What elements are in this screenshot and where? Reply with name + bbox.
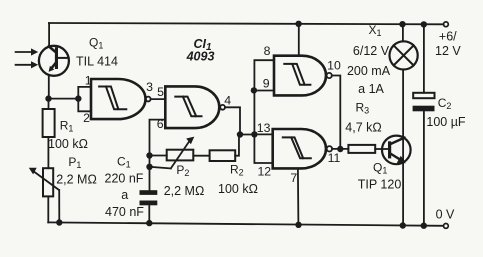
junction C2 on top rail [421,21,427,27]
svg-text:2,2 MΩ: 2,2 MΩ [56,172,97,186]
junction pin14 on top rail [295,21,301,27]
svg-text:1: 1 [85,73,92,87]
svg-text:C2: C2 [438,96,452,111]
NAND gate U1a pins 1,2,3 [91,79,151,119]
wire pin14 supply drop [298,24,300,56]
wire pin7 ground drop [297,168,300,224]
resistor R1 [43,99,55,169]
junction C1 on 0V rail [146,220,152,226]
wire gate3 output pin10 down to pin11 node [332,76,341,150]
svg-text:R2: R2 [230,163,244,178]
resistor R2 [210,150,236,161]
svg-text:P2: P2 [176,163,189,178]
wire gate1 output to gate2 pin5 [151,98,166,100]
wire node A to node B [49,98,79,100]
capacitor C1 [140,190,158,223]
svg-text:220 nF: 220 nF [105,171,144,185]
junction lamp on top rail [399,21,405,27]
svg-text:Q1: Q1 [373,161,387,176]
svg-text:10: 10 [327,58,341,72]
capacitor C2 [413,24,435,225]
svg-text:4093: 4093 [186,49,215,63]
wire pin4 node to input line [240,134,254,136]
svg-text:7: 7 [290,171,297,185]
junction P1 wiper on 0V rail [56,219,62,225]
wire R2 right up to pin4 node [235,135,239,156]
junction pin7 on 0V rail [295,222,301,228]
wire Q1 emitter down to node A [48,75,50,98]
trimpot P2 [150,137,195,169]
svg-text:200 mA: 200 mA [347,64,391,78]
svg-text:13: 13 [257,121,271,135]
light arrow 2 [16,61,39,68]
svg-text:100 kΩ: 100 kΩ [48,137,88,151]
svg-text:0 V: 0 V [436,208,455,222]
junction pin6 line to P2 [146,152,152,158]
svg-text:+6/: +6/ [439,30,457,44]
svg-text:TIP 120: TIP 120 [358,178,402,192]
svg-text:2: 2 [83,111,90,125]
svg-text:5: 5 [157,85,164,99]
junction pin9 [251,87,257,93]
wire gate1 input bar pins 1-2 [78,87,91,111]
junction C2 on 0V rail [421,223,427,229]
wire pin13 [254,133,272,135]
wire P2 to R2 [193,155,209,157]
wire R3 to Q2 base [375,148,388,150]
wire node to P2 left [150,155,167,157]
svg-text:a: a [121,188,128,202]
transistor Q2 TIP 120 [382,136,411,165]
svg-text:12: 12 [257,164,271,178]
wire Q1 collector to top rail [48,23,50,47]
light arrow 1 [16,48,39,55]
wire bottom 0V rail [48,222,443,225]
wire top supply rail [49,23,444,24]
svg-text:R1: R1 [60,119,74,134]
svg-text:6/12 V: 6/12 V [353,44,390,58]
resistor R3 [348,145,375,153]
wire lamp / Q2 collector-emitter vertical [402,70,404,226]
svg-text:8: 8 [264,44,271,58]
svg-text:3: 3 [146,80,153,94]
junction pin11 node [337,146,343,152]
junction pin4 node [237,131,243,137]
junction pin6 line to P2 wiper [146,164,152,170]
svg-text:TIL 414: TIL 414 [76,54,118,68]
NAND gate U1c pins 8,9,10 [274,56,332,96]
svg-text:2,2 MΩ: 2,2 MΩ [164,184,205,198]
svg-text:100 kΩ: 100 kΩ [218,182,258,196]
svg-text:100 µF: 100 µF [426,115,466,129]
wire gate2 output pin4 [225,107,240,134]
node A junction [45,95,51,101]
terminal +6/12V [444,22,449,27]
svg-text:9: 9 [263,76,270,90]
svg-text:X1: X1 [369,23,382,38]
transistor Q1 TIL 414 [39,46,69,76]
svg-text:a 1A: a 1A [358,82,384,96]
junction pin13 [251,131,257,137]
svg-text:P1: P1 [68,155,81,170]
wire pin9 [254,90,274,92]
svg-text:4,7 kΩ: 4,7 kΩ [345,121,381,135]
NAND gate U1d pins 12,13,11 [273,129,332,168]
potentiometer P1 [29,168,60,223]
svg-text:12 V: 12 V [435,44,461,58]
junction Q2 emitter on 0V rail [400,222,406,228]
wire gate2 pin6 from P2/C1 node [150,120,166,191]
svg-text:Q1: Q1 [89,36,103,51]
lamp X1 [390,24,418,69]
svg-text:R3: R3 [356,101,370,116]
wire gate4 output pin11 [332,148,348,150]
svg-text:470 nF: 470 nF [105,205,144,219]
svg-text:4: 4 [224,93,231,107]
NAND gate U1b pins 5,6,4 [165,86,225,128]
wire gates 3-4 input line [254,60,274,163]
terminal 0V [444,224,449,229]
svg-text:6: 6 [157,117,164,131]
svg-text:11: 11 [328,151,341,165]
node B junction [75,95,81,101]
svg-text:C1: C1 [117,155,131,170]
